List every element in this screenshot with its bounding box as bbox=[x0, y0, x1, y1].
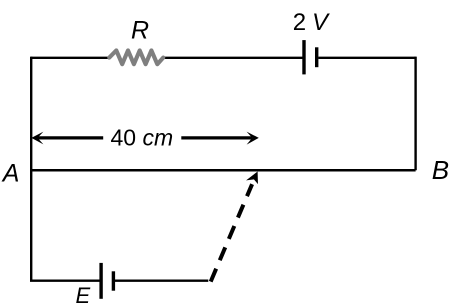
svg-text:40 cm: 40 cm bbox=[111, 124, 174, 150]
svg-text:R: R bbox=[131, 17, 149, 45]
svg-text:E: E bbox=[76, 283, 91, 308]
svg-text:V: V bbox=[312, 9, 330, 36]
svg-text:B: B bbox=[432, 155, 449, 185]
svg-text:A: A bbox=[1, 160, 20, 188]
svg-text:2: 2 bbox=[293, 9, 306, 36]
